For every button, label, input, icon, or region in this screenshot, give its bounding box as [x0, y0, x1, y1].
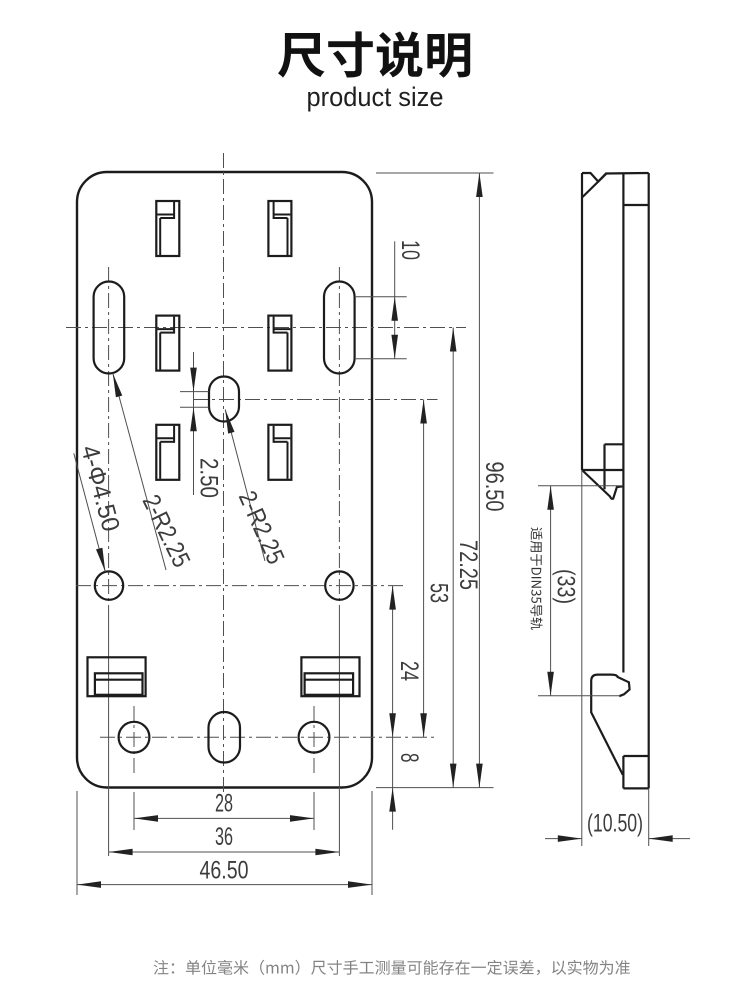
svg-text:96.50: 96.50 [480, 462, 508, 512]
svg-text:(33): (33) [552, 569, 580, 604]
svg-text:2-R2.25: 2-R2.25 [233, 487, 290, 569]
svg-text:24: 24 [395, 661, 423, 681]
svg-text:2-R2.25: 2-R2.25 [137, 490, 196, 571]
svg-text:46.50: 46.50 [200, 857, 249, 885]
svg-text:8: 8 [395, 753, 423, 763]
svg-text:53: 53 [425, 583, 453, 603]
svg-text:2.50: 2.50 [195, 458, 223, 498]
svg-text:product size: product size [307, 82, 444, 112]
svg-text:(10.50): (10.50) [587, 810, 643, 838]
svg-text:36: 36 [215, 823, 233, 851]
svg-text:72.25: 72.25 [454, 540, 482, 590]
svg-text:28: 28 [215, 790, 233, 818]
svg-text:10: 10 [396, 240, 424, 260]
